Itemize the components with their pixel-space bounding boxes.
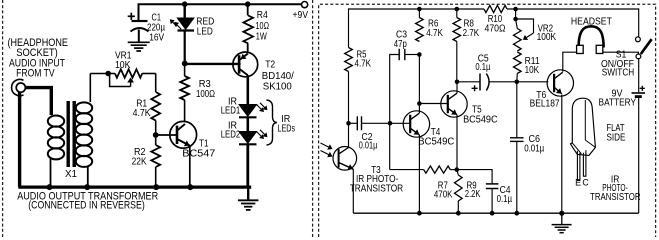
resistor R10 470ohm (series in rail) bbox=[484, 5, 507, 34]
node junction LED / R3 / T2 base bbox=[182, 61, 188, 67]
node junction rail/T6 emitter/ground bbox=[559, 211, 564, 216]
switch S1 on/off bbox=[601, 37, 652, 79]
node junction R8 / T5 collector / C5 bbox=[455, 80, 460, 85]
capacitor C2 0.01u bbox=[349, 116, 391, 151]
wire node to T3 collector bbox=[348, 123, 350, 147]
wire top supply rail (left panel) bbox=[138, 3, 302, 5]
svg-text:SWITCH: SWITCH bbox=[602, 68, 635, 79]
transistor T6 BEL187 (NPN) bbox=[530, 70, 574, 110]
svg-text:BATTERY: BATTERY bbox=[599, 98, 637, 109]
svg-text:BC549C: BC549C bbox=[418, 136, 454, 147]
label audio output transformer bbox=[17, 190, 158, 211]
wire T1 emitter to ground rail bbox=[189, 146, 191, 187]
wire battery to ground rail bbox=[638, 97, 640, 213]
wire T6 collector to headset bbox=[563, 52, 577, 72]
svg-text:BC547: BC547 bbox=[182, 148, 215, 159]
potentiometer VR2 100K bbox=[513, 9, 556, 51]
node junction T5 emitter / R7 / R9 / C4 bbox=[455, 167, 460, 172]
ground (left panel) bbox=[238, 199, 259, 201]
svg-text:E: E bbox=[575, 177, 581, 187]
resistor R1 4.7K bbox=[133, 74, 161, 121]
wire R6 to T4 collector node bbox=[418, 55, 420, 104]
wire headset to switch/battery column bbox=[603, 52, 639, 54]
potentiometer VR1 10K bbox=[90, 51, 155, 87]
svg-text:2.2K: 2.2K bbox=[465, 189, 481, 200]
node junction T4 collector / T5 base bbox=[417, 101, 422, 106]
transformer X1 primary winding bbox=[48, 116, 64, 187]
capacitor C4 0.1u bbox=[457, 170, 513, 213]
wire node to T5 base bbox=[419, 103, 447, 105]
battery 9V bbox=[599, 86, 645, 109]
wire R5 to C2/T3 node bbox=[348, 72, 350, 124]
capacitor C3 47p bbox=[390, 29, 420, 123]
node junction C2 / C3 / T4 base / R7 bbox=[388, 121, 393, 126]
node junction rail/primary bbox=[47, 184, 53, 190]
wire node to T6 base bbox=[517, 81, 549, 83]
svg-text:HEADSET: HEADSET bbox=[571, 16, 612, 27]
svg-text:10K: 10K bbox=[525, 65, 540, 76]
transistor T1 BC547 (NPN) bbox=[170, 121, 216, 159]
svg-text:2.7K: 2.7K bbox=[463, 28, 480, 39]
svg-text:470K: 470K bbox=[434, 190, 453, 201]
svg-text:+9V: +9V bbox=[293, 10, 309, 21]
wire top supply rail (right panel, left section) bbox=[349, 9, 485, 48]
wire top supply rail (right panel, right section) bbox=[507, 9, 639, 37]
svg-text:47p: 47p bbox=[394, 39, 407, 50]
node junction rail/C4 bbox=[490, 211, 495, 216]
svg-text:R4: R4 bbox=[257, 10, 269, 21]
node junction rail/R2 bbox=[153, 184, 159, 190]
node junction C5 / R11 / C6 / T6 base bbox=[515, 80, 520, 85]
wire T3 emitter to ground rail bbox=[352, 169, 353, 213]
ground (right panel) bbox=[552, 224, 572, 226]
svg-text:LED2: LED2 bbox=[221, 130, 241, 141]
transistor T4 BC549C (NPN) bbox=[403, 111, 454, 148]
wire node down to T4 collector bbox=[418, 104, 420, 114]
LED IR LED1 bbox=[221, 96, 268, 117]
svg-text:4.7K: 4.7K bbox=[426, 28, 443, 39]
wire T2 collector to IR LED1 bbox=[247, 75, 250, 106]
wire VR1 to transformer secondary bbox=[89, 74, 91, 103]
headset bbox=[571, 16, 612, 53]
capacitor C6 0.01u bbox=[510, 82, 544, 213]
wire node to T4 base bbox=[390, 122, 410, 124]
svg-text:LEDs: LEDs bbox=[278, 124, 296, 135]
node junction rail/T1 emitter bbox=[187, 184, 193, 190]
wire IR LED2 to ground rail bbox=[246, 144, 249, 188]
LED RED (red indicator LED) bbox=[170, 4, 215, 37]
wire RED LED cathode to base node bbox=[184, 31, 186, 64]
svg-text:0.01µ: 0.01µ bbox=[524, 144, 544, 155]
node junction rail/secondary bbox=[84, 184, 90, 190]
ground (C1) bbox=[128, 41, 150, 43]
wire jack tip to transformer primary bbox=[25, 88, 51, 115]
wire R3 to T1 collector bbox=[184, 100, 186, 122]
wire R4 to T2 emitter bbox=[247, 44, 249, 54]
transformer X1 core bbox=[66, 101, 69, 167]
node junction rail / RED LED column bbox=[182, 1, 188, 7]
wire jack sleeve to ground rail bbox=[18, 92, 21, 187]
transistor T5 BC549C (NPN) bbox=[441, 91, 498, 126]
wire T6 emitter to ground rail bbox=[561, 95, 563, 214]
resistor R9 2.2K bbox=[455, 170, 481, 213]
svg-text:4.7K: 4.7K bbox=[133, 108, 151, 119]
svg-text:FROM TV: FROM TV bbox=[16, 67, 55, 79]
node junction R5 / C2 / T3 collector bbox=[346, 121, 351, 126]
capacitor C5 0.1u (polarized) bbox=[457, 54, 517, 92]
svg-text:0.1µ: 0.1µ bbox=[497, 194, 513, 205]
node junction rail/R9 bbox=[456, 211, 461, 216]
svg-text:10K: 10K bbox=[115, 60, 131, 71]
svg-text:100K: 100K bbox=[537, 32, 557, 43]
transformer X1 secondary winding bbox=[65, 102, 92, 186]
phototransistor T3 bbox=[321, 143, 404, 194]
wire switch to battery bbox=[638, 59, 640, 93]
svg-text:0.01µ: 0.01µ bbox=[359, 141, 378, 152]
svg-text:22K: 22K bbox=[132, 156, 147, 167]
node junction C3/R6 column bbox=[417, 52, 422, 57]
wire rail to ground symbol bbox=[247, 188, 249, 200]
transistor T2 BD140/SK100 (PNP) bbox=[233, 52, 294, 92]
svg-text:4.7K: 4.7K bbox=[355, 59, 372, 70]
svg-text:BEL187: BEL187 bbox=[530, 99, 560, 110]
wire T4 emitter to ground rail bbox=[418, 135, 420, 213]
brace IR LEDs bbox=[267, 100, 296, 145]
phototransistor package pictorial bbox=[570, 98, 640, 203]
svg-text:SIDE: SIDE bbox=[607, 133, 626, 144]
wire T5 emitter down to R7/R9 node bbox=[456, 115, 458, 170]
resistor R7 470K bbox=[390, 123, 457, 200]
svg-text:(CONNECTED IN REVERSE): (CONNECTED IN REVERSE) bbox=[28, 200, 145, 212]
svg-text:LED1: LED1 bbox=[221, 106, 241, 117]
svg-text:LED: LED bbox=[197, 26, 213, 37]
node junction rail/C6 bbox=[514, 211, 519, 216]
wire ground rail (left panel) bbox=[18, 186, 251, 189]
resistor R3 100ohm bbox=[180, 63, 215, 100]
node junction R1/R2/T1 base bbox=[153, 132, 159, 138]
svg-text:TRANSISTOR: TRANSISTOR bbox=[590, 192, 641, 203]
resistor R5 4.7K bbox=[345, 48, 372, 72]
node junction VR1 wiper / left terminal bbox=[105, 71, 111, 77]
svg-text:C: C bbox=[582, 177, 589, 187]
wire IR LED1 to IR LED2 bbox=[247, 117, 250, 131]
wire ground rail (right panel) bbox=[353, 212, 638, 214]
resistor R11 10K bbox=[514, 52, 540, 82]
svg-text:T2: T2 bbox=[265, 60, 275, 71]
resistor R6 4.7K bbox=[416, 9, 444, 42]
node junction rail / R4 column bbox=[245, 1, 251, 7]
terminal +9V bbox=[302, 2, 308, 8]
wire R1 to base node bbox=[155, 121, 157, 136]
svg-text:TRANSISTOR: TRANSISTOR bbox=[350, 183, 404, 194]
wire T1 base lead bbox=[156, 134, 177, 136]
resistor R2 22K bbox=[132, 135, 161, 186]
resistor R8 2.7K bbox=[453, 9, 480, 82]
wire node to T5 collector bbox=[456, 82, 458, 93]
svg-text:SK100: SK100 bbox=[263, 81, 293, 92]
node junction rail/VR2 bbox=[513, 7, 518, 12]
svg-text:16V: 16V bbox=[149, 32, 164, 43]
svg-text:100Ω: 100Ω bbox=[196, 89, 215, 100]
label headphone socket / audio input bbox=[7, 37, 68, 80]
node junction rail/R8 bbox=[455, 7, 460, 12]
LED IR LED2 bbox=[221, 120, 268, 144]
wire node to T2 base bbox=[185, 63, 241, 65]
resistor R4 10ohm 1W bbox=[243, 4, 269, 43]
jack headphone socket bbox=[12, 79, 26, 95]
node junction rail/T4 emitter bbox=[417, 211, 422, 216]
svg-text:1W: 1W bbox=[256, 32, 268, 43]
svg-text:470Ω: 470Ω bbox=[485, 23, 506, 34]
svg-text:BC549C: BC549C bbox=[463, 114, 498, 125]
capacitor C1 220u 16V bbox=[128, 4, 166, 44]
node junction rail/R6 bbox=[417, 7, 422, 12]
svg-text:X1: X1 bbox=[65, 169, 77, 180]
wire rail to ground symbol bbox=[561, 213, 563, 224]
svg-text:0.1µ: 0.1µ bbox=[475, 62, 490, 73]
